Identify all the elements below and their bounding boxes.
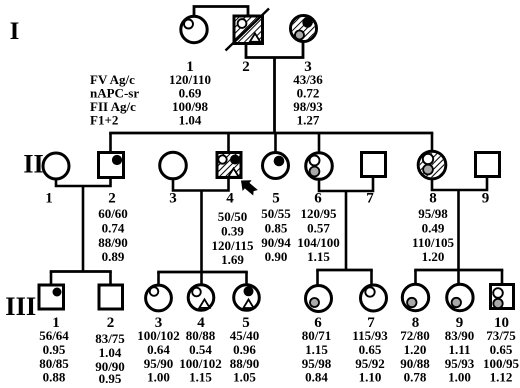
svg-text:1: 1 (45, 191, 53, 207)
stub to II-8 (431, 133, 434, 152)
svg-text:0.95: 0.95 (43, 342, 66, 357)
stub to III-7 (370, 270, 373, 286)
descent line II-8/II-9 through sibship to III-9 (457, 190, 460, 286)
svg-text:100/102: 100/102 (137, 328, 180, 343)
svg-text:5: 5 (272, 191, 280, 207)
sibship line III-6,7 (316, 269, 373, 272)
individual II-3: circle (160, 152, 187, 179)
individual III-1: square, black dot (39, 285, 64, 309)
svg-text:95/98: 95/98 (418, 206, 448, 221)
svg-text:0.64: 0.64 (147, 342, 170, 357)
sibship line III-3,4,5 (157, 271, 248, 274)
svg-text:1.15: 1.15 (189, 370, 212, 384)
descent line II-6/II-7 to sibship III-6,7 (345, 191, 348, 271)
stub to II-6 (318, 133, 321, 153)
stub to II-2 (109, 133, 112, 152)
svg-text:72/80: 72/80 (400, 328, 430, 343)
stub to III-8 (414, 270, 417, 285)
descent line II-1/II-2 to sibship III-1,2 (82, 186, 85, 273)
svg-text:120/95: 120/95 (300, 206, 337, 221)
stub to III-1 (50, 272, 53, 287)
descent line from I-2/I-3 to generation II sibship (273, 58, 276, 135)
svg-text:0.88: 0.88 (43, 370, 66, 384)
svg-text:0.49: 0.49 (422, 221, 445, 236)
svg-text:1.00: 1.00 (448, 370, 471, 384)
svg-text:1.20: 1.20 (422, 249, 445, 264)
svg-text:120/115: 120/115 (212, 238, 254, 253)
svg-text:88/90: 88/90 (98, 235, 128, 250)
svg-text:90/94: 90/94 (261, 235, 291, 250)
svg-text:1.15: 1.15 (307, 249, 330, 264)
svg-text:3: 3 (169, 191, 177, 207)
svg-text:50/55: 50/55 (261, 206, 291, 221)
stub to III-2 (109, 272, 112, 287)
stub to II-4 (227, 133, 230, 152)
svg-text:6: 6 (314, 191, 322, 207)
svg-text:2: 2 (107, 315, 115, 331)
svg-text:0.84: 0.84 (305, 370, 328, 384)
svg-text:1.12: 1.12 (490, 370, 513, 384)
individual II-1: circle (43, 153, 69, 179)
deceased slash over I-2 (226, 9, 270, 51)
svg-text:110/105: 110/105 (412, 235, 454, 250)
svg-text:115/93: 115/93 (352, 328, 388, 343)
svg-text:0.90: 0.90 (265, 249, 288, 264)
svg-text:2: 2 (242, 59, 250, 75)
individual III-6: circle, gray dot (306, 286, 332, 312)
svg-text:1.15: 1.15 (305, 342, 328, 357)
stub to III-5 (245, 272, 248, 286)
proband arrow pointing at II-4 (236, 175, 260, 198)
svg-text:1.69: 1.69 (221, 252, 244, 267)
svg-text:0.57: 0.57 (307, 221, 330, 236)
individual III-3: circle, white dot (146, 285, 172, 311)
marriage line I-2 x I-3 (246, 41, 303, 58)
marriage line II-8 x II-9 (432, 177, 487, 191)
svg-text:0.89: 0.89 (102, 249, 125, 264)
svg-text:0.96: 0.96 (233, 342, 256, 357)
individual II-7: square (362, 153, 386, 177)
svg-text:2: 2 (108, 191, 116, 207)
stub to II-5 (274, 133, 277, 153)
svg-text:0.65: 0.65 (490, 342, 513, 357)
sibship line III-8,9,10 (414, 269, 503, 272)
svg-text:83/90: 83/90 (445, 328, 475, 343)
individual II-6: circle, white dot top, gray dot below (306, 153, 333, 180)
individual II-4: proband, hatched square, white dot, black dot, triangle (217, 153, 241, 178)
individual III-2: square (99, 285, 123, 309)
svg-text:1.04: 1.04 (99, 345, 122, 360)
marriage line I-1 x I-2 (drawn above symbols) (194, 7, 248, 17)
svg-text:8: 8 (429, 191, 437, 207)
svg-text:73/75: 73/75 (486, 328, 516, 343)
individual I-1: circle, white dot upper-left (181, 16, 207, 42)
svg-text:1.11: 1.11 (448, 342, 470, 357)
individual I-2: hatched square, deceased slash, white dot upper-left, triangle lower-right (234, 16, 263, 44)
marriage line II-6 x II-7 (319, 177, 373, 192)
marriage line II-1 x II-2 (56, 178, 111, 187)
svg-text:1.05: 1.05 (233, 370, 256, 384)
sibship line generation II (109, 132, 433, 135)
svg-text:0.54: 0.54 (189, 342, 212, 357)
individual II-5: circle, black dot top (263, 153, 289, 179)
svg-text:56/64: 56/64 (39, 328, 69, 343)
individual III-10: square, white dot, gray dot (491, 285, 514, 309)
svg-text:50/50: 50/50 (218, 209, 248, 224)
svg-text:1.00: 1.00 (147, 370, 170, 384)
svg-text:0.78: 0.78 (404, 370, 427, 384)
svg-text:1.27: 1.27 (297, 112, 320, 127)
svg-text:83/75: 83/75 (95, 331, 125, 346)
svg-text:104/100: 104/100 (297, 235, 340, 250)
individual III-5: circle, black dot, triangle (234, 285, 260, 311)
svg-text:0.39: 0.39 (221, 224, 244, 239)
individual III-4: circle, white dot, triangle (188, 285, 214, 311)
svg-text:III: III (5, 291, 36, 321)
svg-text:F1+2: F1+2 (90, 112, 118, 127)
individual III-9: circle, gray dot (447, 284, 473, 310)
svg-text:0.85: 0.85 (265, 221, 288, 236)
svg-text:0.74: 0.74 (102, 221, 125, 236)
stub to III-6 (316, 270, 319, 287)
svg-text:I: I (10, 18, 20, 45)
individual III-8: circle, gray dot (402, 284, 428, 310)
svg-text:45/40: 45/40 (230, 328, 260, 343)
svg-text:80/71: 80/71 (302, 328, 332, 343)
svg-text:80/88: 80/88 (186, 328, 216, 343)
svg-text:9: 9 (482, 191, 490, 207)
svg-text:60/60: 60/60 (98, 206, 128, 221)
individual II-9: square (476, 153, 500, 177)
descent line II-3/II-4 through sibship to III-4 (200, 191, 203, 287)
individual II-2: square, black dot upper-right (99, 153, 124, 178)
svg-text:1.20: 1.20 (404, 342, 427, 357)
individual I-3: hatched circle, black dot upper-right, gray dot lower-left (291, 16, 317, 42)
svg-text:II: II (23, 150, 43, 179)
individual III-7: circle, white dot (361, 285, 387, 311)
svg-text:0.95: 0.95 (99, 371, 122, 383)
svg-text:7: 7 (366, 191, 374, 207)
sibship line III-1,2 (50, 270, 112, 273)
svg-text:1.10: 1.10 (359, 370, 382, 384)
svg-text:0.65: 0.65 (359, 342, 382, 357)
svg-text:4: 4 (226, 191, 234, 207)
marriage line II-3 x II-4 (173, 178, 229, 191)
svg-text:1.04: 1.04 (179, 112, 202, 127)
stub to III-3 (157, 272, 160, 286)
individual II-8: hatched circle, white dot, gray dot (418, 151, 446, 179)
stub to III-10 (501, 270, 504, 285)
